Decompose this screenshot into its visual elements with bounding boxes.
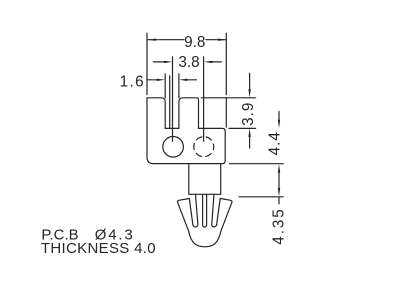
latch window (right step cut)	[199, 128, 226, 163]
body top edge with left slot and right slit opening	[147, 98, 199, 129]
stem left edge	[188, 164, 190, 195]
hole circle (solid, left)	[163, 137, 184, 158]
dimension 3.8 line and arrows	[153, 61, 164, 63]
extension line right (x=226.5)	[225, 33, 227, 94]
body right edge	[225, 98, 227, 127]
extension line left (x=147)	[146, 33, 148, 94]
extension lines 1.6 (slot walls up)	[164, 74, 166, 98]
dimension 1.6 line and arrows	[147, 79, 158, 81]
left saw slit lines into circle	[172, 57, 174, 142]
dimension 9.8 line and arrows	[147, 39, 184, 41]
body top edge right portion	[201, 97, 226, 99]
svg-text:3.8: 3.8	[178, 54, 199, 71]
svg-text:THICKNESS 4.0: THICKNESS 4.0	[41, 240, 156, 257]
extension line slot bottom to right	[229, 127, 256, 129]
extension line body bottom to right	[230, 163, 284, 165]
left barb slit	[193, 194, 198, 227]
dimension 4.35 stub below	[278, 197, 280, 204]
svg-text:9.8: 9.8	[184, 34, 205, 51]
stem right edge	[220, 164, 222, 195]
center barb slit	[203, 194, 207, 227]
snap barb outline: wings, outer edges, bottom U	[178, 199, 232, 247]
extension line body top to right	[226, 97, 255, 99]
extension line wing top to right	[239, 196, 283, 198]
dimension 3.9 line and arrows (vertical)	[249, 73, 251, 90]
hole circle (dashed, right)	[194, 137, 214, 157]
stem bottom edge	[189, 193, 221, 195]
svg-text:3.9: 3.9	[240, 102, 257, 126]
dimension 4.4 line and arrows (vertical)	[278, 112, 280, 121]
body left edge and bottom edge	[147, 98, 222, 164]
right barb slit	[212, 194, 217, 227]
svg-text:4.35: 4.35	[270, 207, 287, 244]
right slit line into dashed circle (3.8 extension)	[203, 57, 205, 142]
svg-text:1.6: 1.6	[120, 73, 145, 90]
svg-text:4.4: 4.4	[267, 131, 284, 155]
